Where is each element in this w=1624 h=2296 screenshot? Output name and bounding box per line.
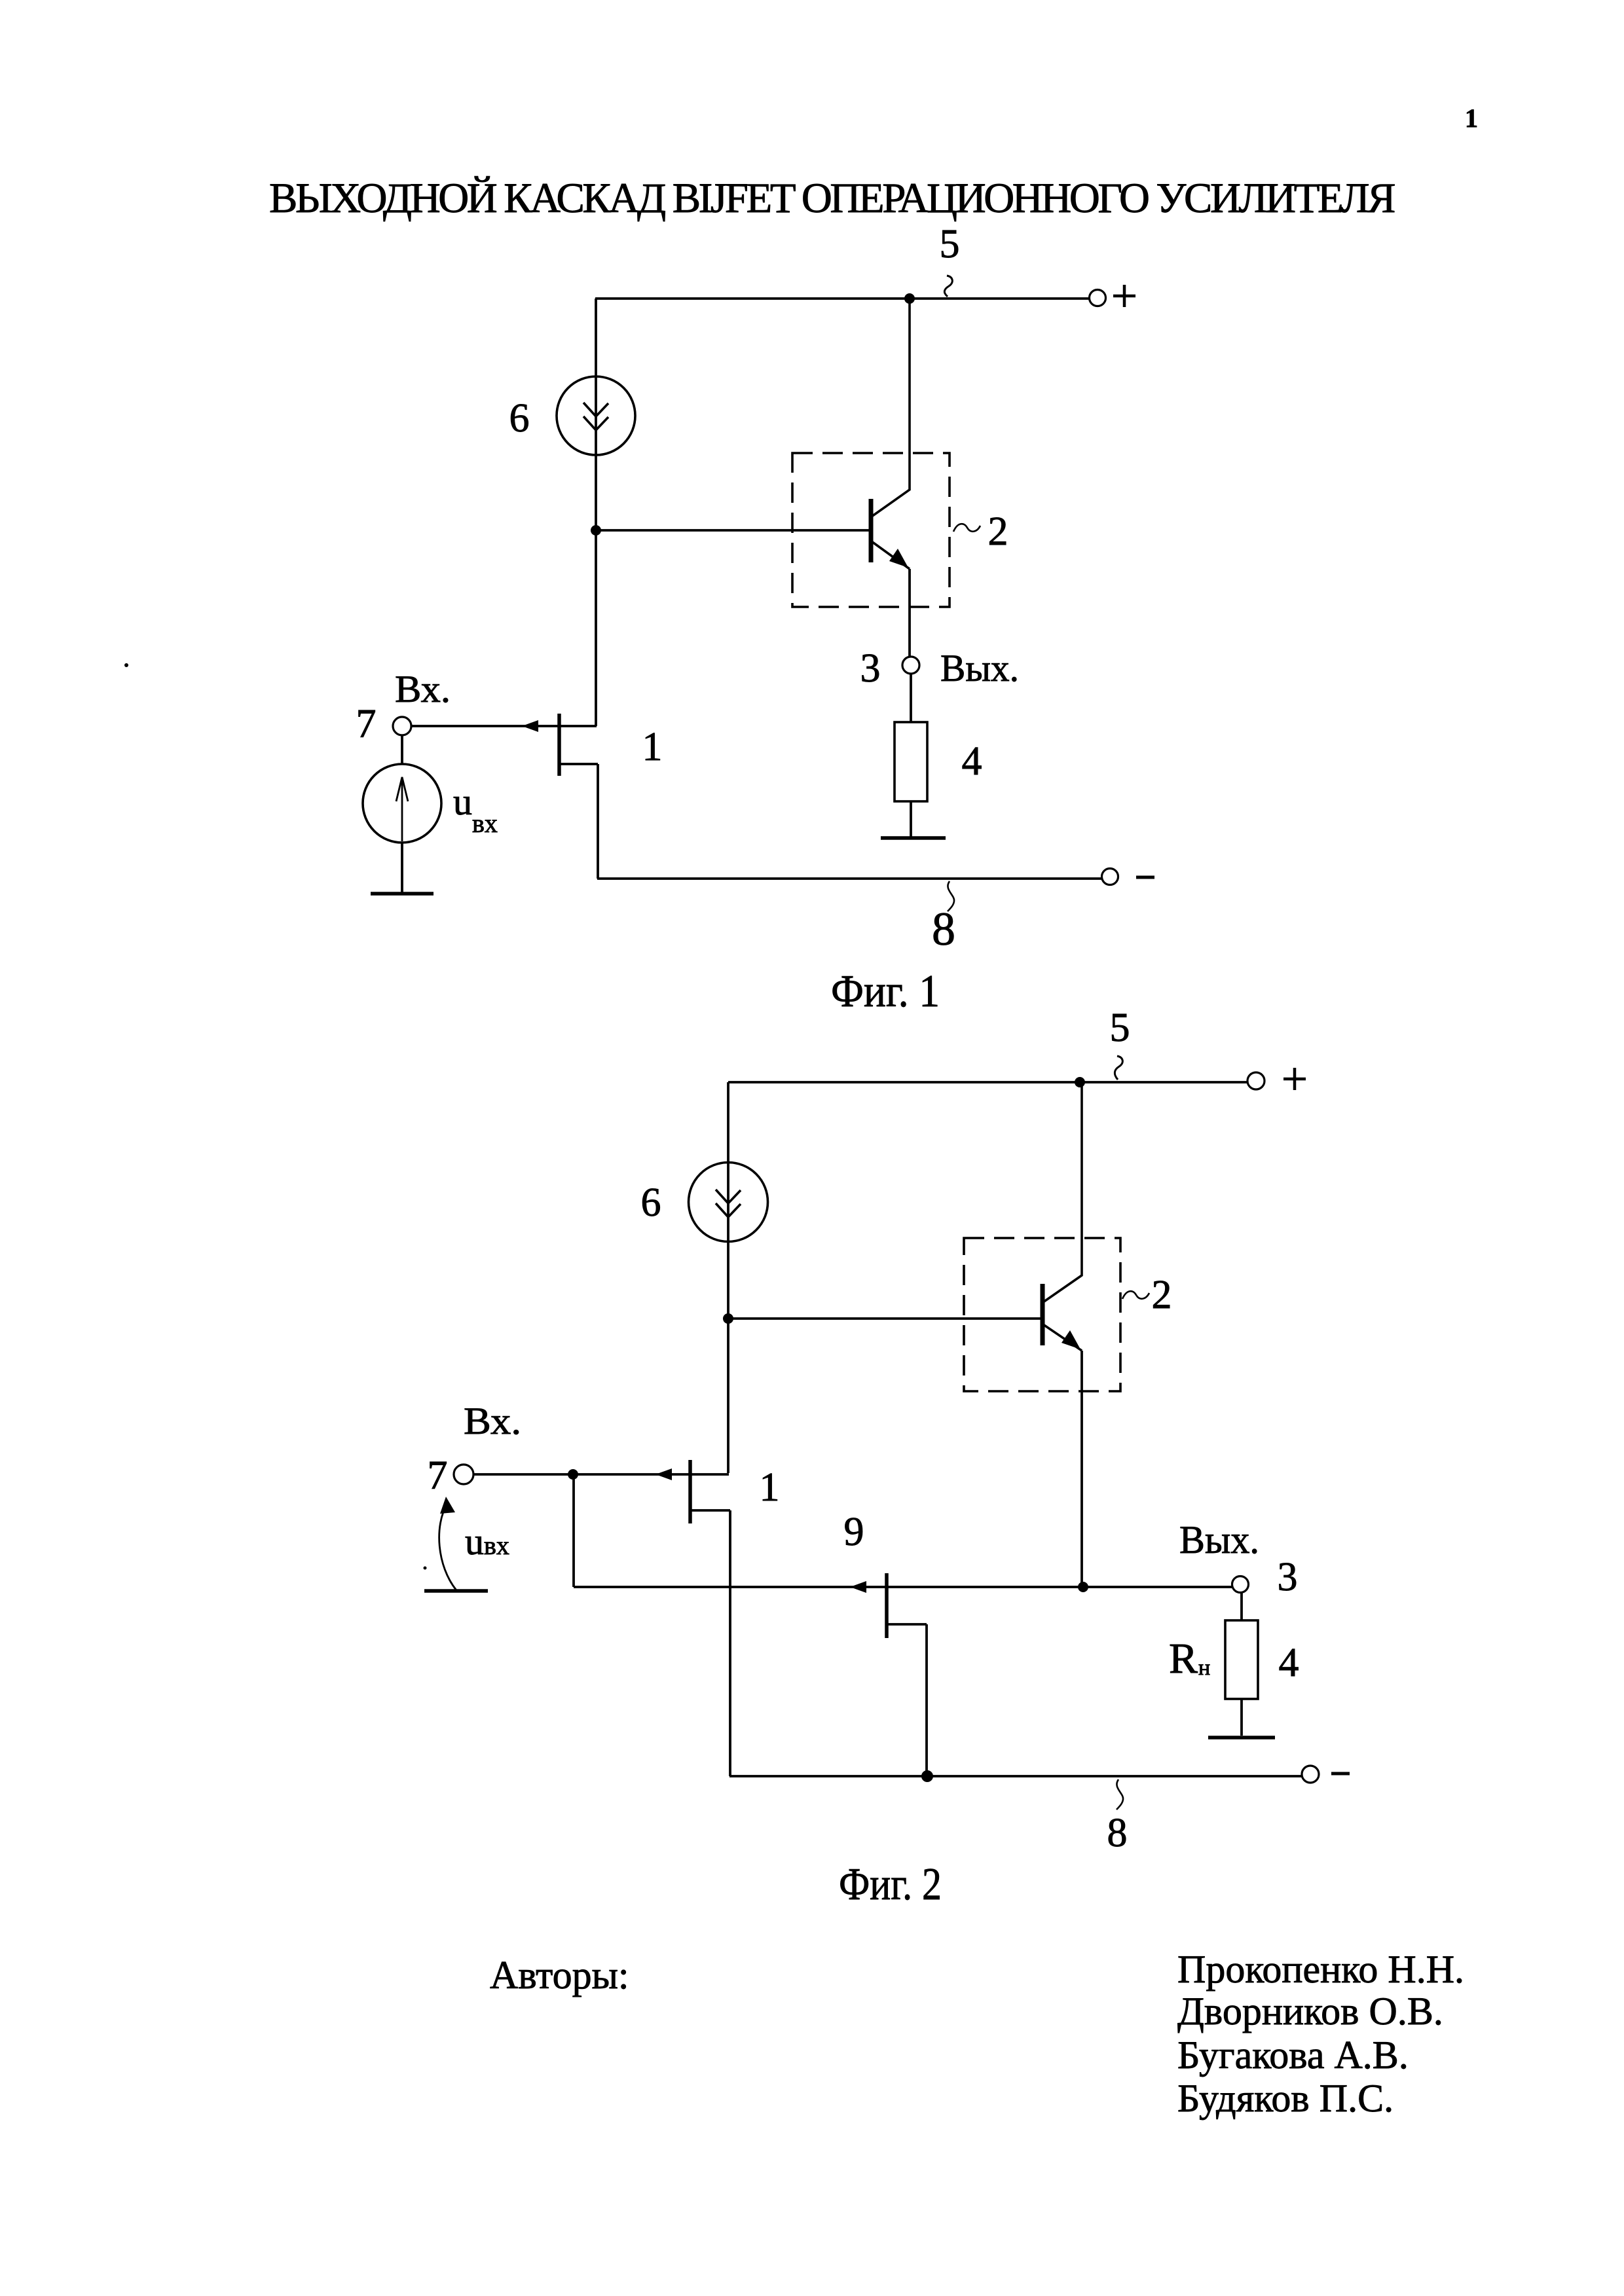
JFET T9 source wire down (925, 1624, 928, 1776)
wire positive rail fig2 (728, 1081, 1247, 1084)
terminal 8 circle (-) fig2 (1302, 1766, 1319, 1783)
node 8 squiggle fig2 (1116, 1779, 1123, 1810)
svg-text:5: 5 (1110, 1006, 1130, 1050)
node junction dot on positive rail fig2 (1075, 1077, 1085, 1087)
svg-text:u: u (465, 1520, 484, 1563)
uвх arc arrowhead fig2 (440, 1497, 455, 1514)
svg-text:вх: вх (472, 809, 498, 838)
svg-text:Вх.: Вх. (395, 668, 451, 710)
svg-text:3: 3 (1278, 1555, 1298, 1599)
transistor Q2 collector fig2 (1043, 1082, 1082, 1302)
svg-text:Прокопенко Н.Н.: Прокопенко Н.Н. (1177, 1948, 1464, 1991)
svg-text:2: 2 (988, 509, 1008, 554)
emitter arrowhead fig2 (1061, 1330, 1080, 1349)
svg-text:R: R (1169, 1635, 1198, 1683)
speck (124, 663, 128, 667)
current source chevron 1 fig2 (716, 1190, 741, 1203)
JFET T9 gate bar (885, 1573, 889, 1638)
JFET T1 gate arrowhead (522, 720, 538, 732)
ground under resistor 4 (881, 836, 946, 840)
svg-text:9: 9 (844, 1510, 864, 1554)
current source I6 circle fig2 (689, 1163, 768, 1242)
svg-text:Вых.: Вых. (1179, 1518, 1259, 1561)
terminal 7 input circle (393, 717, 411, 735)
JFET T1 gate arrowhead fig2 (655, 1468, 672, 1480)
minus sign fig1 (1136, 876, 1154, 879)
wire emitter down to output (908, 569, 911, 657)
terminal 7 input circle fig2 (454, 1465, 473, 1484)
uвх arc arrow fig2 (439, 1504, 456, 1590)
node junction dot on positive rail (904, 293, 915, 304)
JFET T1 source wire down fig2 (729, 1510, 731, 1776)
wire output to resistor fig2 (1240, 1592, 1243, 1620)
node 5 squiggle fig2 (1115, 1056, 1122, 1080)
svg-text:ВЫХОДНОЙ КАСКАД BIJFET ОПЕРАЦИ: ВЫХОДНОЙ КАСКАД BIJFET ОПЕРАЦИОННОГО УСИ… (269, 175, 1395, 222)
node base junction dot (591, 525, 601, 536)
wire positive rail fig1 (595, 297, 1090, 300)
terminal 3 circle fig2 (1232, 1576, 1249, 1593)
svg-text:6: 6 (509, 396, 530, 441)
svg-text:5: 5 (940, 222, 960, 266)
svg-text:1: 1 (642, 725, 663, 769)
svg-text:7: 7 (428, 1453, 448, 1498)
ground under Rн (1208, 1736, 1275, 1740)
JFET T9 source contact (887, 1623, 927, 1626)
ground reference fig2 input (424, 1589, 488, 1593)
svg-text:н: н (1198, 1656, 1210, 1680)
svg-text:8: 8 (1107, 1811, 1128, 1855)
resistor 4 (895, 722, 927, 801)
wire base of Q2 fig2 (728, 1317, 1043, 1320)
svg-text:Фиг. 2: Фиг. 2 (839, 1859, 942, 1910)
emitter arrowhead (889, 549, 908, 568)
wire emitter down to output node fig2 (1080, 1351, 1083, 1587)
wire from rail down through current source fig2 (727, 1082, 729, 1473)
JFET T1 gate bar fig2 (688, 1460, 692, 1523)
node input junction dot fig2 (568, 1469, 578, 1480)
input source arrowhead (396, 777, 408, 801)
wire base of Q2 (596, 529, 871, 532)
squiggle to label 2 (953, 524, 980, 532)
transistor Q2 collector (872, 299, 910, 517)
JFET T9 gate arrowhead fig2 (850, 1581, 866, 1593)
svg-text:Фиг. 1: Фиг. 1 (831, 966, 940, 1017)
transistor Q2 dashed box fig2 (964, 1238, 1120, 1391)
JFET T1 gate bar (557, 714, 561, 776)
svg-text:4: 4 (1279, 1641, 1299, 1685)
transistor Q2 base bar (869, 499, 874, 562)
transistor Q2 emitter fig2 (1043, 1324, 1082, 1351)
JFET T1 gate wire (411, 725, 597, 727)
JFET T1 source wire down (597, 764, 599, 879)
node base junction dot fig2 (723, 1313, 733, 1324)
svg-text:4: 4 (962, 739, 982, 784)
current source chevron 2 (583, 416, 608, 430)
wire input drop fig2 (572, 1474, 575, 1587)
wire negative rail fig1 (597, 877, 1102, 880)
current source I6 circle (557, 376, 635, 455)
svg-text:7: 7 (356, 702, 377, 746)
svg-text:Дворников О.В.: Дворников О.В. (1177, 1990, 1443, 2033)
JFET T1 gate wire fig2 (473, 1473, 729, 1476)
JFET T1 source contact fig2 (690, 1509, 730, 1512)
svg-text:3: 3 (860, 646, 881, 691)
transistor Q2 emitter (872, 541, 910, 569)
plus sign fig2 (1283, 1078, 1306, 1081)
svg-text:2: 2 (1152, 1273, 1172, 1317)
node output junction dot fig2 (1078, 1582, 1088, 1592)
node 5 squiggle (944, 276, 952, 297)
svg-text:1: 1 (760, 1465, 780, 1510)
transistor Q2 dashed box (792, 453, 950, 607)
terminal 8 circle (-) (1102, 869, 1118, 885)
terminal 3 output circle (902, 657, 919, 674)
svg-text:вх: вх (484, 1531, 509, 1560)
wire from rail down through current source to JFET drain (595, 299, 597, 726)
speck fig2 (424, 1567, 427, 1570)
wire resistor to ground (910, 801, 912, 837)
node junction dot on negative rail fig2 (921, 1770, 933, 1782)
wire input to source circle (401, 735, 403, 764)
current source chevron 2 fig2 (716, 1203, 741, 1217)
wire output row fig2 (574, 1586, 1232, 1588)
svg-text:8: 8 (932, 903, 955, 955)
wire source circle to ground (401, 843, 403, 892)
svg-text:Бугакова А.В.: Бугакова А.В. (1177, 2033, 1409, 2077)
squiggle to label 2 fig2 (1122, 1291, 1149, 1299)
wire resistor to ground fig2 (1240, 1699, 1243, 1736)
transistor Q2 base bar fig2 (1041, 1284, 1045, 1345)
plus sign fig1 (1113, 295, 1135, 298)
JFET T1 source contact (559, 763, 598, 765)
svg-text:Вх.: Вх. (464, 1400, 521, 1442)
svg-text:1: 1 (1465, 103, 1478, 133)
terminal 5 circle (+) (1090, 290, 1106, 306)
wire negative rail fig2 (729, 1775, 1302, 1777)
wire output to resistor (910, 674, 912, 722)
svg-text:u: u (453, 780, 472, 823)
input source arrow shaft (401, 779, 403, 841)
svg-text:Вых.: Вых. (940, 647, 1019, 689)
svg-text:Авторы:: Авторы: (490, 1954, 629, 1997)
current source chevron 1 (583, 403, 608, 416)
resistor Rн 4 (1225, 1620, 1258, 1699)
svg-text:6: 6 (641, 1180, 661, 1225)
ground under input source (371, 892, 434, 896)
minus sign fig2 (1331, 1772, 1350, 1776)
node 8 squiggle (948, 881, 954, 911)
terminal 5 circle (+) fig2 (1247, 1072, 1264, 1089)
input source u circle (363, 764, 441, 843)
svg-text:Будяков П.С.: Будяков П.С. (1177, 2077, 1393, 2120)
